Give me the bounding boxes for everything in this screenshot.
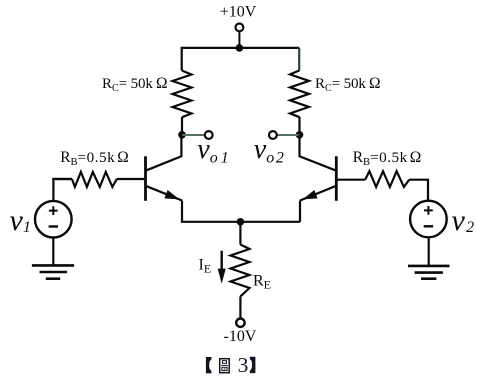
label vo2: [254, 134, 286, 167]
label RB right: [353, 149, 422, 168]
caption glyph tu (figure): [220, 359, 230, 373]
wire vo1 stub (green): [182, 134, 205, 136]
node collector left: [178, 131, 186, 139]
ground v2: [408, 266, 450, 279]
resistor RC left: [173, 71, 192, 118]
transistor Q1 base bar: [144, 156, 147, 201]
wire v2 to ground: [428, 237, 430, 266]
resistor RB left: [72, 172, 117, 187]
-10V terminal circle: [236, 319, 244, 327]
IE arrow: [218, 251, 226, 284]
label RC right: [315, 75, 381, 94]
node top rail junction: [236, 44, 244, 52]
source v1 plus: [49, 206, 58, 215]
svg-text:RC= 50kΩ: RC= 50kΩ: [315, 75, 381, 94]
transistor Q2 collector: [300, 135, 336, 170]
label RC left: [102, 75, 168, 94]
label -10V: [224, 328, 257, 345]
transistor Q1 emitter: [147, 186, 183, 200]
ground v1: [32, 265, 74, 278]
transistor Q2 emitter arrow: [303, 190, 318, 199]
svg-text:+10V: +10V: [220, 4, 257, 21]
wire left resistor to collector node: [181, 117, 183, 135]
source v2 minus: [424, 225, 433, 227]
svg-text:-10V: -10V: [224, 328, 257, 345]
source v1 circle: [35, 201, 72, 238]
vo2 terminal circle: [269, 131, 277, 139]
label vo1: [197, 134, 231, 167]
label RE: [253, 272, 271, 291]
wire emitter rail: [181, 221, 300, 223]
wire top rail: [182, 48, 300, 71]
transistor Q1 emitter arrow: [164, 190, 179, 199]
resistor RE: [231, 245, 250, 297]
label v2: [452, 204, 475, 237]
transistor Q2 base bar: [335, 156, 338, 201]
node collector right: [296, 131, 304, 139]
wire +10V terminal to top rail: [238, 31, 240, 45]
resistor RC right: [290, 70, 309, 117]
wire right resistor to collector node: [298, 117, 300, 135]
wire Q2 base to RB right: [338, 179, 366, 181]
transistor Q2 emitter: [300, 186, 335, 200]
caption bracket right: [250, 357, 256, 373]
wire emitter node to RE: [239, 222, 241, 245]
wire right vertical (green): [298, 48, 300, 71]
wire RB left to Q1 base: [117, 178, 145, 180]
vo1 terminal circle: [205, 131, 213, 139]
wire Q2 emitter down: [299, 201, 301, 222]
source v2 plus: [424, 206, 433, 215]
wire vo2 stub (green): [277, 134, 300, 136]
svg-text:3: 3: [238, 353, 249, 377]
resistor RB right: [365, 171, 409, 187]
wire v1 to ground: [52, 238, 54, 266]
wire v1 corner: [53, 179, 72, 201]
wire RB right to v2 corner: [409, 180, 428, 201]
caption bracket left: [206, 357, 212, 373]
svg-text:RC= 50kΩ: RC= 50kΩ: [102, 75, 168, 94]
node emitter rail junction: [237, 218, 245, 226]
caption number 3: [238, 353, 249, 377]
source v1 minus: [49, 225, 58, 227]
wire RE to -10V terminal: [239, 296, 241, 318]
+10V label: [220, 4, 257, 21]
svg-text:RB=0.5kΩ: RB=0.5kΩ: [60, 149, 129, 168]
source v2 circle: [410, 201, 447, 238]
wire Q1 emitter down: [181, 201, 183, 222]
+10V terminal circle: [236, 24, 244, 32]
svg-text:RB=0.5kΩ: RB=0.5kΩ: [353, 149, 422, 168]
wire v1 to RB left: [52, 178, 72, 180]
label v1: [10, 204, 31, 237]
transistor Q1 collector: [147, 135, 182, 170]
label RB left: [60, 149, 129, 168]
label IE: [199, 257, 212, 276]
